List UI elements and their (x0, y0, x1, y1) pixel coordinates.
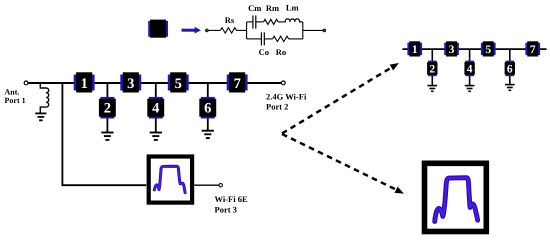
node (parallel block right edge) (302, 22, 304, 39)
bandpass response curve (big box) (435, 178, 478, 222)
resonator 4 (147, 97, 164, 119)
mini resonator 3 (444, 41, 459, 56)
port 2 terminal (281, 81, 285, 85)
ground (mini resonator 4) (465, 86, 475, 92)
svg-text:2: 2 (429, 64, 435, 76)
ground (resonator 6) (202, 131, 214, 138)
dashed arrow (to detailed circuit) (282, 63, 399, 134)
ground (mini resonator 2) (428, 86, 438, 92)
svg-text:4: 4 (467, 64, 473, 76)
svg-text:2: 2 (104, 101, 111, 117)
wire (264, 38, 272, 40)
svg-text:Co: Co (259, 47, 269, 57)
svg-text:7: 7 (530, 44, 536, 56)
port 1 terminal (24, 81, 28, 85)
wire (256, 21, 264, 23)
wire (top branch) (247, 21, 253, 23)
svg-text:5: 5 (175, 76, 182, 92)
resonator 3 (120, 72, 141, 92)
terminal (BVD left) (205, 29, 208, 32)
wire (stub to mini resonator 2) (431, 49, 433, 62)
resonator 1 (74, 72, 95, 92)
svg-text:Cm: Cm (248, 3, 261, 13)
wire (302, 21, 303, 23)
resonator 6 (199, 97, 216, 119)
mini resonator 2 (427, 61, 437, 77)
svg-text:Rs: Rs (225, 15, 235, 25)
wire (289, 38, 303, 40)
wire (stub to resonator 2) (106, 83, 108, 99)
wire (stub to mini resonator 6) (509, 49, 511, 62)
resonator 7 (227, 72, 248, 92)
wire (236, 29, 246, 31)
svg-text:Port 3: Port 3 (215, 204, 237, 214)
wire (208, 29, 220, 31)
wire (main line) (28, 82, 281, 84)
mini resonator 6 (505, 61, 515, 77)
svg-text:1: 1 (81, 76, 88, 92)
wire (469, 76, 471, 85)
wire (155, 119, 157, 132)
wire (stub to resonator 4) (155, 83, 157, 99)
wire (509, 76, 511, 84)
svg-text:Wi-Fi 6E: Wi-Fi 6E (215, 194, 248, 204)
mini resonator 4 (464, 61, 474, 77)
filter box (Wi-Fi 6E branch) (149, 157, 192, 203)
svg-text:5: 5 (485, 44, 491, 56)
svg-text:4: 4 (152, 101, 159, 117)
arrow (legend, blue) (182, 27, 201, 34)
svg-text:6: 6 (204, 101, 211, 117)
svg-text:3: 3 (449, 44, 455, 56)
mini resonator 5 (481, 41, 496, 56)
capacitor Cm (253, 15, 256, 28)
node (parallel block left edge) (246, 22, 248, 39)
ground (port 1 inductor) (35, 113, 46, 120)
capacitor Co (261, 32, 264, 45)
wire (194, 184, 219, 186)
wire (mini circuit main line) (403, 48, 547, 50)
resonator 5 (168, 72, 189, 92)
terminal (BVD right) (323, 29, 326, 32)
inductor (shunt at port 1) (40, 83, 48, 113)
wire (branch to port 3) (62, 83, 146, 185)
svg-text:Port 2: Port 2 (266, 102, 288, 112)
wire (stub to resonator 6) (207, 83, 209, 99)
wire (106, 119, 108, 132)
svg-text:6: 6 (507, 64, 513, 76)
ground (resonator 4) (150, 133, 162, 140)
svg-text:3: 3 (127, 76, 134, 92)
resonator symbol (legend square) (148, 20, 168, 38)
svg-text:Rm: Rm (266, 3, 279, 13)
resistor Rm (264, 19, 278, 24)
bandpass curve (small box) (154, 166, 185, 193)
wire (stub to mini resonator 4) (469, 49, 471, 62)
dashed arrow (to response box) (282, 134, 404, 194)
response box (425, 163, 487, 231)
wire (278, 21, 285, 23)
mini resonator 1 (407, 41, 422, 56)
ground (mini resonator 6) (505, 85, 515, 91)
svg-text:Lm: Lm (286, 2, 299, 12)
wire (303, 29, 323, 31)
inductor Lm (285, 19, 302, 22)
svg-text:7: 7 (234, 76, 241, 92)
resistor Rs (220, 28, 236, 33)
wire (431, 76, 433, 85)
wire (207, 119, 209, 131)
svg-text:2.4G Wi-Fi: 2.4G Wi-Fi (266, 91, 307, 101)
svg-text:Ro: Ro (276, 47, 286, 57)
mini resonator 7 (525, 41, 540, 56)
wire (bottom branch) (247, 38, 262, 40)
ground (resonator 2) (101, 133, 113, 140)
svg-text:1: 1 (412, 44, 418, 56)
port 3 terminal (219, 184, 222, 187)
resonator 2 (99, 97, 116, 119)
resistor Ro (273, 36, 289, 41)
svg-text:Port 1: Port 1 (5, 96, 26, 105)
